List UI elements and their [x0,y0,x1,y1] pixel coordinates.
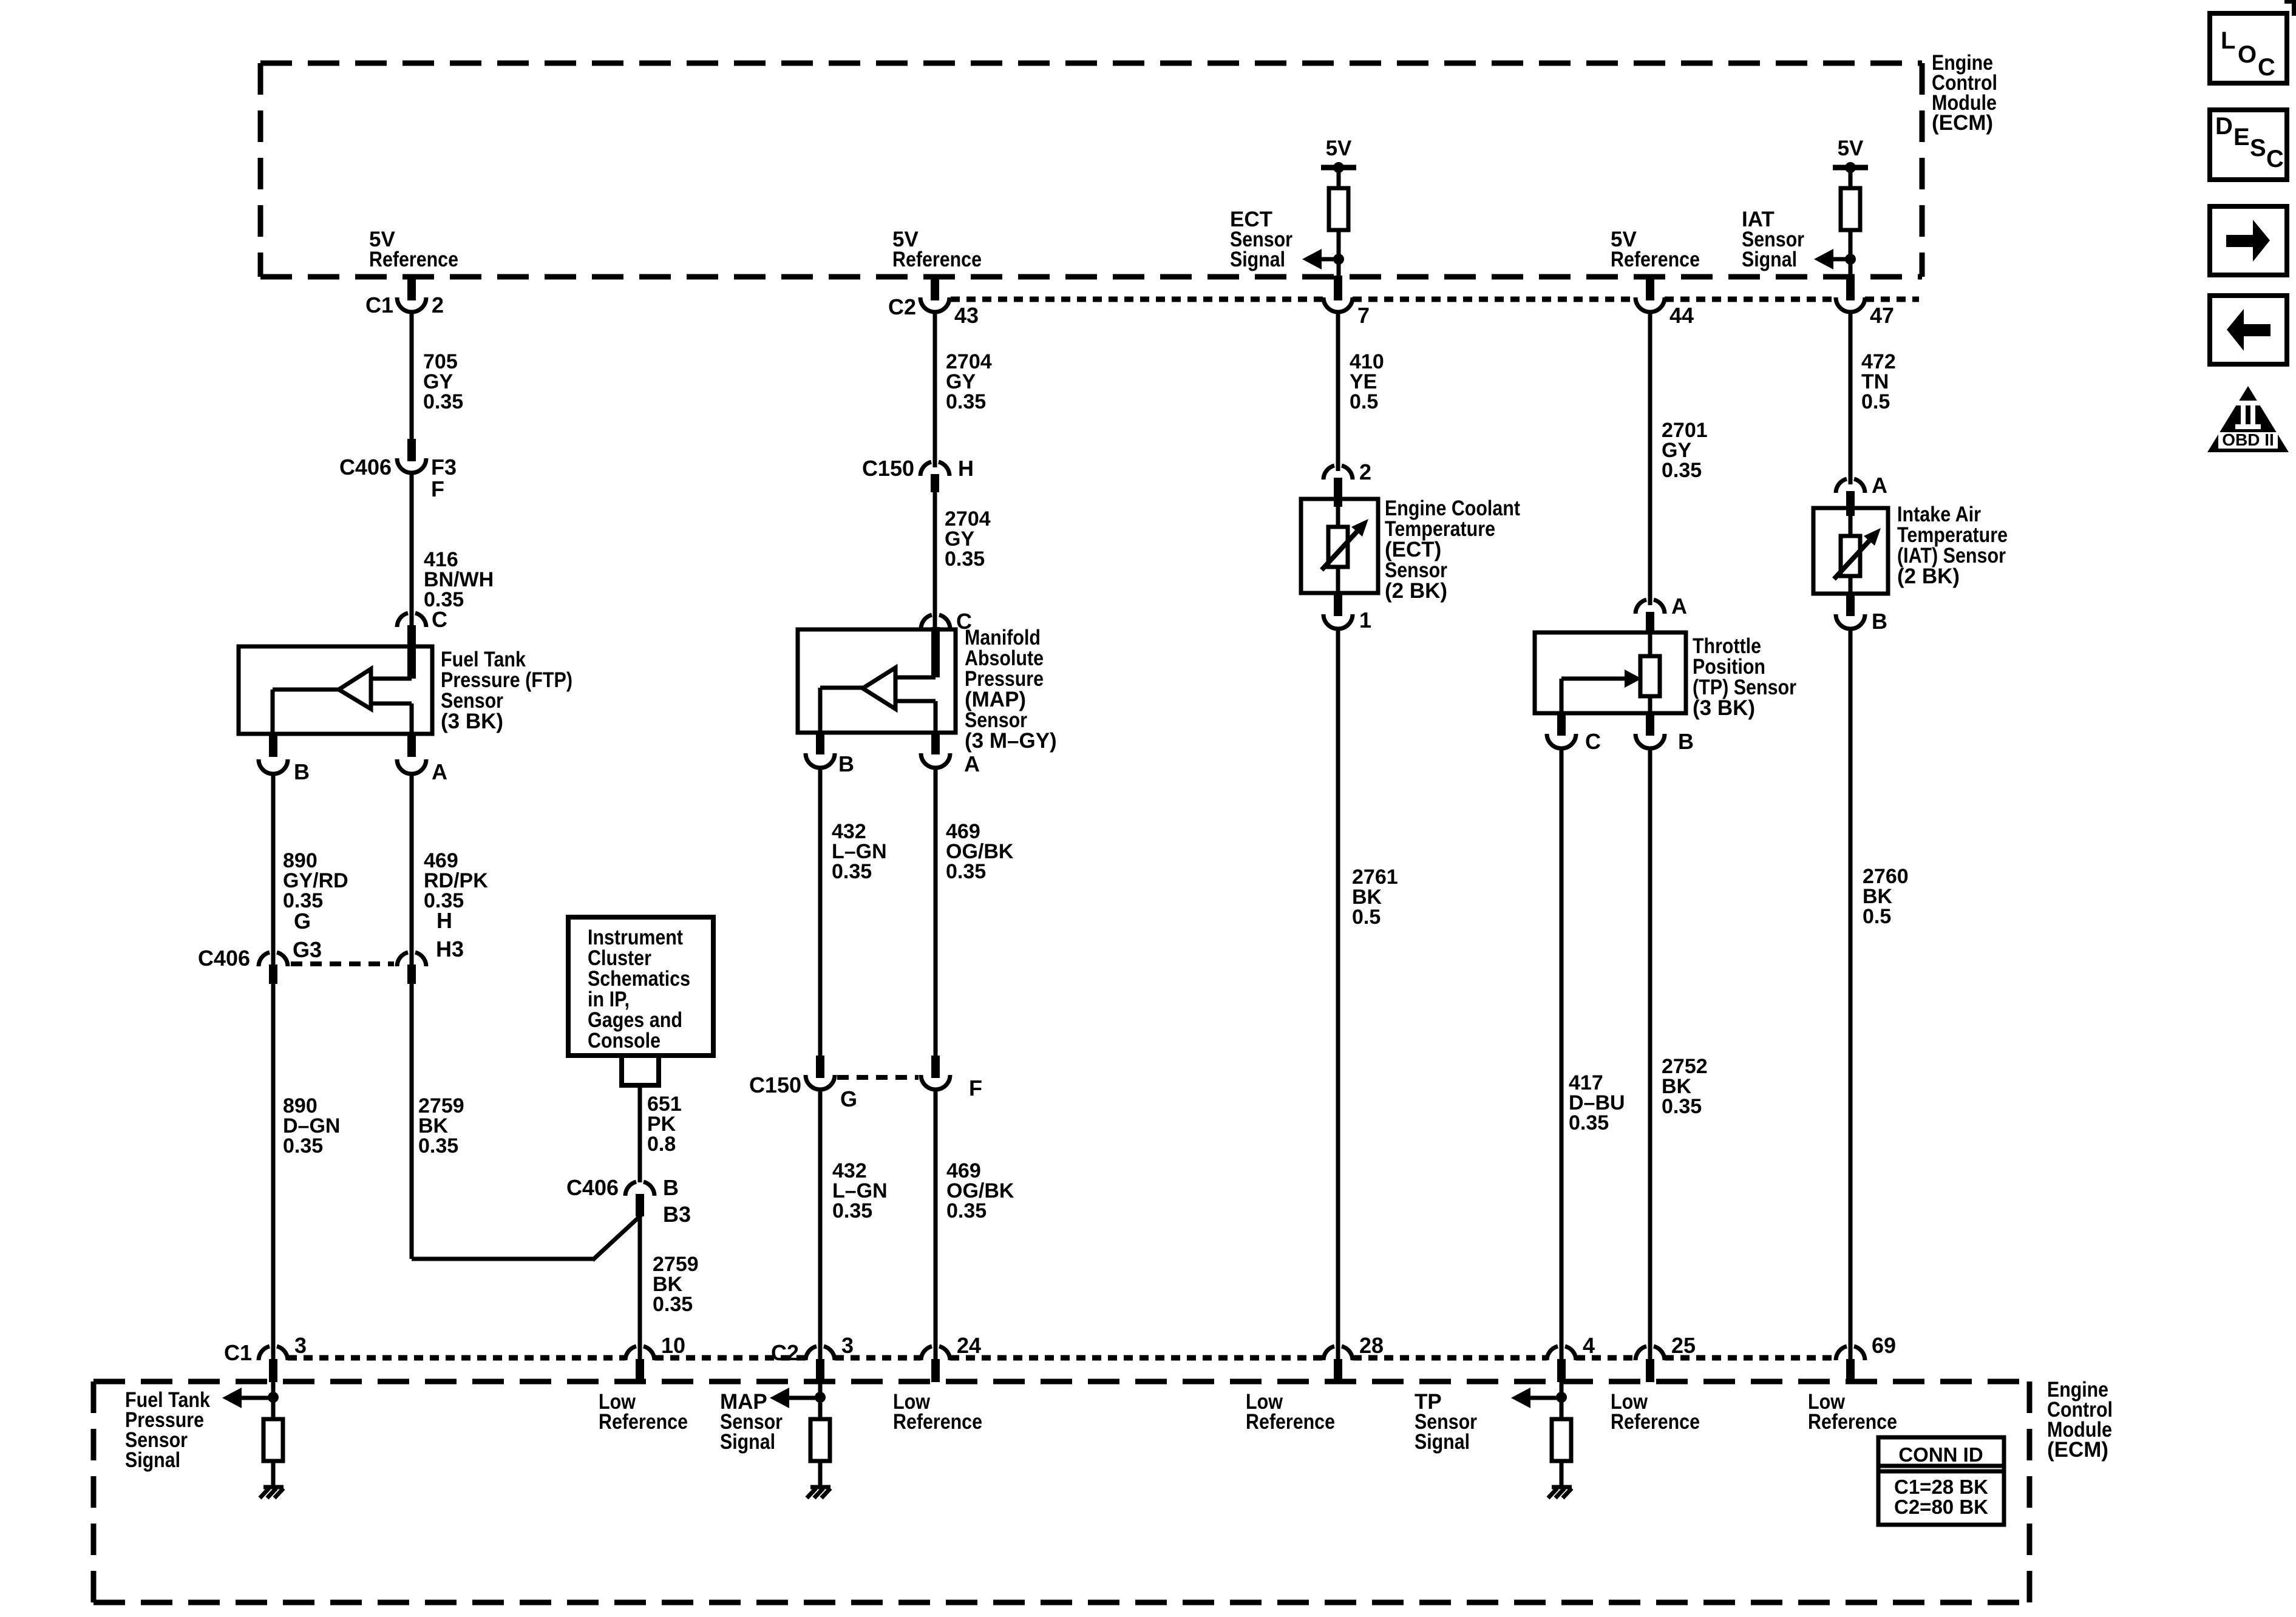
connector C2 pin 43 (5V Reference) [888,274,979,328]
svg-text:(3 M–GY): (3 M–GY) [965,729,1057,753]
svg-text:C2: C2 [888,294,916,319]
label 890 D-GN 0.35 [283,1094,340,1158]
wire junction to resistor [271,1397,276,1419]
svg-text:43: 43 [954,303,979,328]
svg-text:C: C [1585,729,1601,754]
svg-text:Reference: Reference [599,1410,688,1434]
connector C150 F [921,1056,982,1100]
resistor (ECT pull-up in ECM) [1329,188,1348,230]
svg-text:3: 3 [294,1333,307,1358]
Instrument Cluster Schematics box [568,917,713,1056]
svg-text:C1=28 BK: C1=28 BK [1894,1476,1988,1498]
junction dot (ECT signal) [1333,254,1344,265]
wire 2759 BK from C406 B3 to pin 10 [638,1216,642,1359]
svg-text:H: H [958,456,974,481]
connector C406 F3/F inline [339,439,457,501]
wire C2-3 to junction [818,1382,823,1403]
svg-text:0.35: 0.35 [1662,1095,1702,1118]
wire 705 GY from C1-2 to C406 F3 [410,312,414,439]
svg-text:C2=80 BK: C2=80 BK [1894,1496,1988,1518]
svg-text:0.35: 0.35 [832,1199,872,1222]
svg-text:A: A [1872,473,1887,498]
resistor (TP signal pull-down) [1552,1419,1571,1461]
wire 2761 BK from ECT pin 1 to pin 28 [1336,629,1340,1359]
wire junction to resistor (MAP) [818,1397,823,1419]
connector MAP pin B [806,733,854,776]
svg-text:24: 24 [957,1333,981,1358]
label 2760 BK 0.5 [1863,865,1909,928]
svg-text:5V: 5V [1326,137,1352,160]
svg-text:C1: C1 [365,293,393,317]
svg-text:Reference: Reference [1246,1410,1335,1434]
svg-text:0.5: 0.5 [1352,906,1381,929]
wire 5V to resistor (ECT) [1337,170,1341,188]
5V supply terminal (IAT) [1833,137,1868,173]
svg-text:Reference: Reference [1611,248,1700,271]
svg-text:C150: C150 [862,456,914,481]
label Engine Coolant Temperature (ECT) Sensor (2 BK) [1385,497,1520,603]
ECT thermistor symbol [1322,507,1368,593]
svg-text:0.35: 0.35 [1662,459,1702,482]
jumper dashes C150 G-F [837,1075,919,1080]
ECM C1/C2 connector face top (dotted line) [951,297,1919,302]
IAT thermistor symbol [1834,516,1881,594]
svg-text:G: G [294,909,311,934]
label 2701 GY 0.35 [1662,419,1708,482]
resistor (FTP signal pull-down) [263,1419,283,1461]
connector C150 H inline [862,456,974,492]
FTP sensor internal symbol (arrow) [273,669,412,734]
label Low Reference (pin 10) [599,1390,688,1434]
connector pin 10 (Low Reference) [625,1333,685,1382]
Intake Air Temperature sensor box [1813,508,1888,594]
connector ECT pin 1 [1323,593,1371,632]
wire junction to resistor (TP) [1560,1397,1564,1419]
connector pin 28 (Low Reference) [1323,1333,1384,1382]
CONN ID table [1878,1437,2004,1525]
svg-text:F: F [969,1076,982,1100]
label Instrument Cluster Schematics in IP, Gages and Console [588,926,690,1053]
ECM top dashed box (Engine Control Module) [260,63,1922,277]
svg-text:B: B [1678,729,1694,754]
svg-text:0.35: 0.35 [945,547,985,571]
svg-text:47: 47 [1870,303,1894,328]
svg-text:0.35: 0.35 [283,1134,323,1158]
svg-text:Reference: Reference [1611,1410,1700,1434]
signal arrow TP Sensor Signal [1511,1388,1561,1408]
svg-text:F3: F3 [431,455,457,480]
label 469 OG/BK 0.35 (upper) [946,820,1014,883]
connector C406 B/B3 [566,1175,691,1227]
wire 472 TN from pin 47 to IAT pin A [1849,312,1853,484]
svg-text:0.35: 0.35 [418,1134,458,1158]
5V supply terminal (ECT) [1321,137,1356,173]
label 2704 GY 0.35 (upper) [946,350,992,413]
wire 2752 BK from TP B to pin 25 [1648,748,1652,1359]
svg-text:C406: C406 [339,455,392,480]
resistor (IAT pull-up in ECM) [1841,188,1860,230]
label TP Sensor Signal [1415,1390,1477,1454]
label 5V Reference (C1-2) [369,228,458,271]
svg-text:4: 4 [1583,1333,1595,1358]
wire resistor to ECT junction [1337,230,1341,277]
connector FTP pin C [397,607,447,679]
svg-text:(ECM): (ECM) [2047,1438,2108,1462]
label 2759 BK 0.35 (left) [418,1094,464,1158]
svg-text:A: A [964,751,980,776]
OBD II triangle icon [2207,386,2289,452]
junction dot (IAT signal) [1845,254,1856,265]
wire 651 PK from Instrument Cluster to C406 B [638,1085,642,1182]
svg-text:Reference: Reference [1808,1410,1897,1434]
label IAT Sensor Signal [1742,208,1804,271]
svg-text:H: H [436,908,452,933]
Fuel Tank Pressure sensor box [239,646,432,734]
left arrow button icon [2210,296,2287,364]
svg-text:28: 28 [1359,1333,1384,1358]
svg-text:44: 44 [1669,303,1694,328]
svg-text:Reference: Reference [892,248,982,271]
svg-text:H3: H3 [436,937,464,961]
label 432 L-GN 0.35 (lower) [832,1159,888,1222]
DESC button icon [2210,110,2287,180]
svg-text:Signal: Signal [125,1448,180,1472]
junction dot (FTP signal) [268,1392,279,1403]
svg-text:B: B [838,751,854,776]
svg-text:B: B [663,1175,679,1200]
connector TP pin C [1547,713,1601,754]
connector TP pin B [1635,713,1694,754]
connector TP pin A [1635,594,1687,634]
svg-text:CONN ID: CONN ID [1898,1443,1983,1466]
svg-text:0.35: 0.35 [423,390,463,413]
label Fuel Tank Pressure (FTP) Sensor (3 BK) [441,648,572,733]
signal arrow IAT Sensor Signal [1814,249,1850,269]
label 472 TN 0.5 [1861,350,1896,413]
connector MAP pin A [921,733,980,776]
svg-text:OBD II: OBD II [2222,430,2274,449]
wire pin 4 to junction [1560,1382,1564,1403]
signal arrow MAP Sensor Signal [770,1388,820,1408]
ground (FTP signal) [260,1487,284,1498]
svg-text:G: G [840,1086,857,1111]
wire 890 D-GN from C406 G3 to C1 pin 3 [271,984,276,1359]
svg-text:C1: C1 [224,1340,252,1365]
label 651 PK 0.8 [647,1093,682,1156]
label Fuel Tank Pressure Sensor Signal [125,1388,210,1472]
label Low Reference (pin 25) [1611,1390,1700,1434]
svg-text:O: O [2238,41,2257,68]
connector pin 24 (Low Reference) [921,1333,981,1382]
label 469 RD/PK 0.35 [424,849,488,912]
connector C406 G/G3 [198,909,322,984]
connector pin 7 (ECT signal) [1323,276,1370,328]
label Engine Control Module (ECM) bottom right [2047,1378,2113,1462]
junction dot (MAP signal) [815,1392,826,1403]
label 469 OG/BK 0.35 (lower) [946,1159,1014,1222]
svg-text:0.35: 0.35 [946,390,986,413]
svg-text:0.5: 0.5 [1350,390,1378,413]
wire 416 BN/WH from C406 F to FTP pin C [410,473,414,627]
svg-text:2: 2 [1359,459,1371,484]
wire 890 GY/RD from FTP B to C406 G [271,774,276,965]
label Manifold Absolute Pressure (MAP) Sensor (3 M-GY) [965,626,1057,753]
svg-text:L: L [2221,27,2235,54]
svg-text:B: B [294,759,310,784]
svg-text:Reference: Reference [893,1410,982,1434]
Throttle Position sensor box [1535,632,1686,713]
Manifold Absolute Pressure sensor box [798,629,956,733]
connector C2 pin 3 (MAP signal into ECM) [771,1333,854,1382]
svg-text:D: D [2215,113,2233,140]
connector pin 47 (IAT signal) [1836,276,1894,328]
svg-text:G3: G3 [293,937,322,962]
svg-text:Reference: Reference [369,248,458,271]
label 410 YE 0.5 [1350,350,1384,413]
wire 2704 GY from C150 H to MAP pin C [933,492,937,629]
svg-text:25: 25 [1671,1333,1696,1358]
connector pin 69 (Low Reference) [1836,1333,1896,1382]
resistor (MAP signal pull-down) [810,1419,830,1461]
svg-text:C: C [2266,146,2284,172]
TP potentiometer symbol [1561,631,1660,713]
svg-text:Console: Console [588,1029,661,1053]
label Low Reference (pin 69) [1808,1390,1897,1434]
signal arrow ECT Sensor Signal [1302,249,1339,269]
svg-text:0.5: 0.5 [1861,390,1890,413]
svg-text:5V: 5V [1838,137,1864,160]
svg-text:Signal: Signal [1742,248,1797,271]
svg-text:1: 1 [1359,608,1371,632]
svg-text:F: F [431,476,444,501]
connector C406 H/H3 [397,908,464,984]
svg-text:7: 7 [1357,303,1370,328]
svg-text:0.35: 0.35 [946,860,986,883]
svg-text:(2 BK): (2 BK) [1897,564,1960,588]
label 2761 BK 0.5 [1352,866,1398,929]
bracket under Instrument Cluster box [619,1056,661,1085]
connector pin 25 (Low Reference) [1635,1333,1696,1382]
wire 410 YE from pin 7 to ECT pin 2 [1336,312,1340,471]
wire 2704 GY from C2-43 to C150 H [933,312,937,467]
svg-text:(3 BK): (3 BK) [441,710,503,733]
ground (MAP signal) [807,1487,830,1498]
connector C1 pin 2 (5V Reference) [365,274,444,317]
svg-text:0.35: 0.35 [1569,1111,1609,1134]
wire resistor to ground (MAP) [818,1461,823,1487]
svg-text:Signal: Signal [1230,248,1285,271]
label Throttle Position (TP) Sensor (3 BK) [1693,634,1796,720]
svg-text:3: 3 [841,1333,854,1358]
svg-text:Signal: Signal [720,1430,775,1454]
connector MAP pin C [921,609,972,677]
wire resistor to ground [271,1461,276,1487]
svg-text:0.35: 0.35 [653,1293,693,1316]
svg-text:C2: C2 [771,1340,799,1365]
wire 469 RD/PK from FTP A to C406 H3 [410,774,414,965]
svg-text:S: S [2250,135,2266,161]
right arrow button icon [2210,206,2287,275]
connector IAT pin A [1836,473,1887,516]
label 2759 BK 0.35 (below B3) [653,1253,699,1316]
wire 5V to resistor (IAT) [1849,170,1853,188]
wire C1-3 to junction [271,1382,276,1403]
wire 2760 BK from IAT B to pin 69 [1849,629,1853,1359]
svg-text:C406: C406 [198,946,250,971]
label Intake Air Temperature (IAT) Sensor (2 BK) [1897,503,2008,588]
wire 469 OG/BK from C150 F to pin 24 [934,1090,938,1359]
svg-text:C: C [2258,54,2275,81]
page corner mark [2284,0,2296,16]
Engine Coolant Temperature sensor box [1301,499,1378,593]
ground (TP signal) [1548,1487,1572,1498]
label ECT Sensor Signal [1230,208,1292,271]
label Engine Control Module (ECM) top right [1932,51,1997,135]
svg-text:0.35: 0.35 [946,1199,987,1222]
wire resistor to IAT junction [1849,230,1853,277]
svg-text:(3 BK): (3 BK) [1693,696,1755,720]
label Low Reference (pin 28) [1246,1390,1335,1434]
label 432 L-GN 0.35 (upper) [832,820,887,883]
svg-text:A: A [432,759,447,784]
svg-text:0.35: 0.35 [832,860,872,883]
connector C150 G [749,1056,857,1111]
label MAP Sensor Signal [720,1390,783,1454]
connector pin 44 (5V Reference TP) [1635,274,1694,328]
label 416 BN/WH 0.35 [424,548,494,611]
ECM bottom dashed box (Engine Control Module) [93,1381,2029,1602]
svg-text:10: 10 [661,1333,685,1358]
svg-text:69: 69 [1872,1333,1896,1358]
svg-text:B: B [1872,609,1887,634]
svg-text:0.5: 0.5 [1863,905,1891,928]
connector FTP pin B [259,734,310,784]
svg-text:Signal: Signal [1415,1430,1470,1454]
wire 2701 GY from pin 44 to TP pin A [1648,312,1652,605]
svg-text:(2 BK): (2 BK) [1385,579,1447,603]
wire 417 D-BU from TP C to pin 4 [1560,748,1564,1359]
svg-text:C150: C150 [749,1073,801,1097]
junction dot (TP signal) [1556,1392,1567,1403]
connector ECT pin 2 [1323,459,1371,507]
svg-text:E: E [2233,124,2250,151]
wire 432 L-GN from C150 G to C2 pin 3 [818,1090,823,1359]
MAP sensor internal symbol (arrow) [820,668,936,733]
jumper dashes C406 G3-H3 [291,961,394,966]
label Low Reference (pin 24) [893,1390,982,1434]
label 5V Reference (pin 44) [1611,228,1700,271]
label 705 GY 0.35 [423,350,463,413]
wire 469 OG/BK from MAP A to C150 F [934,768,938,1056]
connector FTP pin A [397,734,447,784]
connector C1 pin 3 (FTP signal into ECM) [224,1333,307,1382]
label 890 GY/RD 0.35 [283,849,348,912]
signal arrow Fuel Tank Pressure Sensor Signal [222,1388,273,1408]
svg-text:(ECM): (ECM) [1932,111,1993,135]
connector IAT pin B [1836,594,1887,634]
svg-text:A: A [1671,594,1687,619]
svg-text:2: 2 [432,293,444,317]
svg-text:C406: C406 [566,1175,619,1200]
svg-text:C: C [432,607,447,632]
label 5V Reference (C2-43) [892,228,982,271]
LOC button icon [2210,13,2287,83]
wire 432 L-GN from MAP B to C150 G [818,768,823,1056]
svg-text:B3: B3 [663,1202,691,1227]
wire resistor to ground (TP) [1560,1461,1564,1487]
label 417 D-BU 0.35 [1569,1071,1625,1134]
label 2704 GY 0.35 (lower) [945,507,991,571]
wire 2759 BK from C406 H3 to junction below C406 B3 [412,984,641,1260]
connector pin 4 (TP signal into ECM) [1547,1333,1595,1382]
ECM C1/C2 connector face bottom (dotted line) [288,1355,1836,1361]
label 2752 BK 0.35 [1662,1055,1708,1118]
svg-text:0.8: 0.8 [647,1133,676,1156]
